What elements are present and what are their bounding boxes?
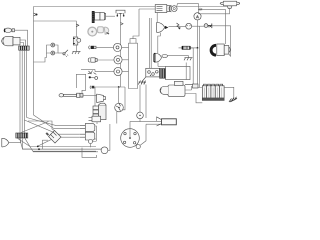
panel socket row 2 (88, 58, 97, 62)
wire S1 down to bell1 (156, 13, 158, 23)
wire harness diagonal 2 (20, 138, 31, 149)
wire starter terminal (185, 86, 192, 90)
wire oval to ground (168, 56, 189, 58)
engine long box (166, 66, 191, 79)
battery ground (229, 97, 237, 102)
wire headlamp to bundle (20, 40, 26, 46)
junction loop with terminals (47, 45, 59, 53)
wire harness diagonal 3 (25, 138, 96, 151)
wire left vertical from top corner (33, 7, 35, 47)
wire gauge left to spark symbol (169, 26, 186, 28)
wire socket3 to panel (122, 71, 128, 73)
flasher F on wire x76 (73, 37, 81, 45)
wire mid horizontal y87 (95, 86, 125, 88)
connector hatch on engine box (160, 69, 166, 79)
wire coil to junction T (106, 15, 116, 17)
trailer plug 1 (80, 124, 95, 132)
fuel pump circle bottom (101, 147, 108, 154)
bell lamp 3 (97, 94, 106, 103)
wire generator bottom bend (229, 54, 231, 57)
connector block 1 (19, 46, 30, 50)
lamp bell 2 (154, 53, 168, 62)
wire box under diamond (42, 140, 48, 149)
connector dots on bottom wires (37, 146, 39, 148)
coil box bottom right (157, 117, 177, 126)
wire battery to ground (224, 87, 234, 99)
wire long vertical from T down (120, 17, 122, 88)
panel socket row 1 (89, 46, 96, 50)
terminal post top (51, 43, 55, 47)
wire harness diagonal 4 (20, 122, 49, 134)
regulator box (146, 68, 160, 77)
node tick on x120 wire (121, 23, 124, 26)
wire harness diagonal 1 (17, 138, 96, 147)
wire y10 to tank corner (202, 10, 226, 44)
ground below flasher (72, 52, 81, 55)
connector ticks right of ammeter stem (198, 8, 201, 11)
dash panel rectangle R1 (129, 43, 138, 88)
battery (202, 84, 224, 100)
parking lamp left top (4, 28, 14, 32)
high beam fork component (88, 71, 98, 80)
spark zig symbol (177, 23, 181, 28)
wire points lead (146, 123, 162, 125)
small plug on y87 left (90, 86, 94, 89)
wire fuse left stub (179, 47, 183, 49)
ignition coil dark ribbed bar (92, 11, 106, 23)
ground below regulator (138, 77, 146, 85)
socket terminal 1 (113, 43, 121, 51)
wire pump to plugs (108, 124, 110, 150)
terminal post bottom (51, 51, 55, 55)
wire bottom pair to pump circle (30, 148, 101, 150)
diamond connector plug (46, 131, 61, 144)
condenser on distributor (136, 145, 140, 149)
socket terminal 2 (114, 56, 122, 64)
wire key feed down to battery (198, 26, 200, 87)
wire panel down to distributor lead (139, 85, 141, 122)
connector stack below bell3 (93, 103, 106, 119)
wire ammeter down (197, 20, 199, 48)
horn bottom left (2, 138, 9, 147)
wire pair down to regulator (149, 18, 151, 68)
wire horn to connector 2 (9, 138, 21, 142)
wire bell1 down to bell2 (158, 33, 161, 53)
fuse on ammeter feed (182, 46, 190, 49)
wire tank stem down and to ammeter level (198, 8, 229, 13)
spark plug component (59, 93, 83, 97)
wire y87 branches down (94, 87, 96, 116)
trailer plug 2 (80, 132, 95, 140)
wire prong lines to bundle diagonals (27, 118, 80, 126)
light switch box S1 (155, 5, 170, 13)
wire top long W1 (34, 6, 228, 8)
engine box inner vertical (185, 63, 187, 80)
wire row2 to socket (97, 59, 114, 61)
wire row1 to socket (96, 46, 113, 48)
wire branch y21 to panel (34, 21, 77, 37)
panel socket row 3 wire (81, 69, 114, 71)
wire socket1 to panel (122, 46, 129, 48)
wire starter feed (185, 84, 193, 86)
small circle under plugs (89, 140, 93, 144)
dimmer switch (63, 50, 68, 57)
wire junction to diamond plug (28, 121, 55, 131)
wire gauge right to key (192, 25, 204, 27)
small box outline near pump (82, 148, 97, 158)
inline gauge circle (137, 112, 144, 119)
wire staircase from loop to bundle (34, 53, 47, 62)
R1 cap (130, 39, 136, 44)
wire socket2 to panel (122, 59, 128, 61)
wire key to generator drop (212, 26, 231, 57)
wire to dimmer switch (58, 52, 63, 54)
ignition key (204, 24, 212, 29)
starter relay small block (193, 84, 199, 88)
top plug above stack (89, 116, 101, 122)
node connector tick at x76 (76, 24, 79, 27)
wire top right box corner (133, 9, 139, 39)
wire bulb to ammeter corner (177, 4, 199, 13)
wire magneto down (116, 111, 118, 123)
wire junction down to battery (198, 48, 203, 88)
wire bundle verticals (19, 50, 21, 133)
oil gauge circle (186, 23, 192, 29)
wire plug to bell3 (83, 94, 96, 96)
ground right of bell2 (184, 58, 193, 61)
wire fuse to junction dot (190, 47, 197, 49)
wire second feed down to starter (185, 48, 193, 85)
wire harness bottom 1 (23, 138, 102, 149)
panel bulb at S1 (169, 5, 177, 12)
starter motor (160, 81, 185, 96)
node connector tick on left vertical (34, 13, 37, 16)
horn button cluster light gray (88, 27, 109, 36)
ammeter A (194, 13, 201, 20)
wire bell2 down (157, 62, 159, 66)
magneto circle (115, 103, 124, 112)
socket terminal 3 (114, 67, 122, 75)
wire from regulator area down to coil box fan (156, 117, 158, 121)
wire parking lamp to bundle (15, 30, 28, 46)
wire hatch down to coil box (145, 85, 147, 119)
lower left box outline (76, 74, 85, 98)
connector block 2 (16, 133, 28, 138)
headlamp left (2, 36, 21, 46)
horn bell 1 (157, 22, 169, 32)
hatch right of R1 bottom (139, 81, 146, 84)
wire x34 long vertical (33, 46, 35, 115)
distributor (121, 129, 140, 148)
horn button T component (116, 10, 125, 16)
generator (211, 44, 230, 56)
wire plug link (95, 126, 97, 139)
wire starter to battery bottom (185, 94, 202, 103)
wire distributor to coil box (130, 122, 162, 138)
fuel tank top right (220, 1, 240, 8)
